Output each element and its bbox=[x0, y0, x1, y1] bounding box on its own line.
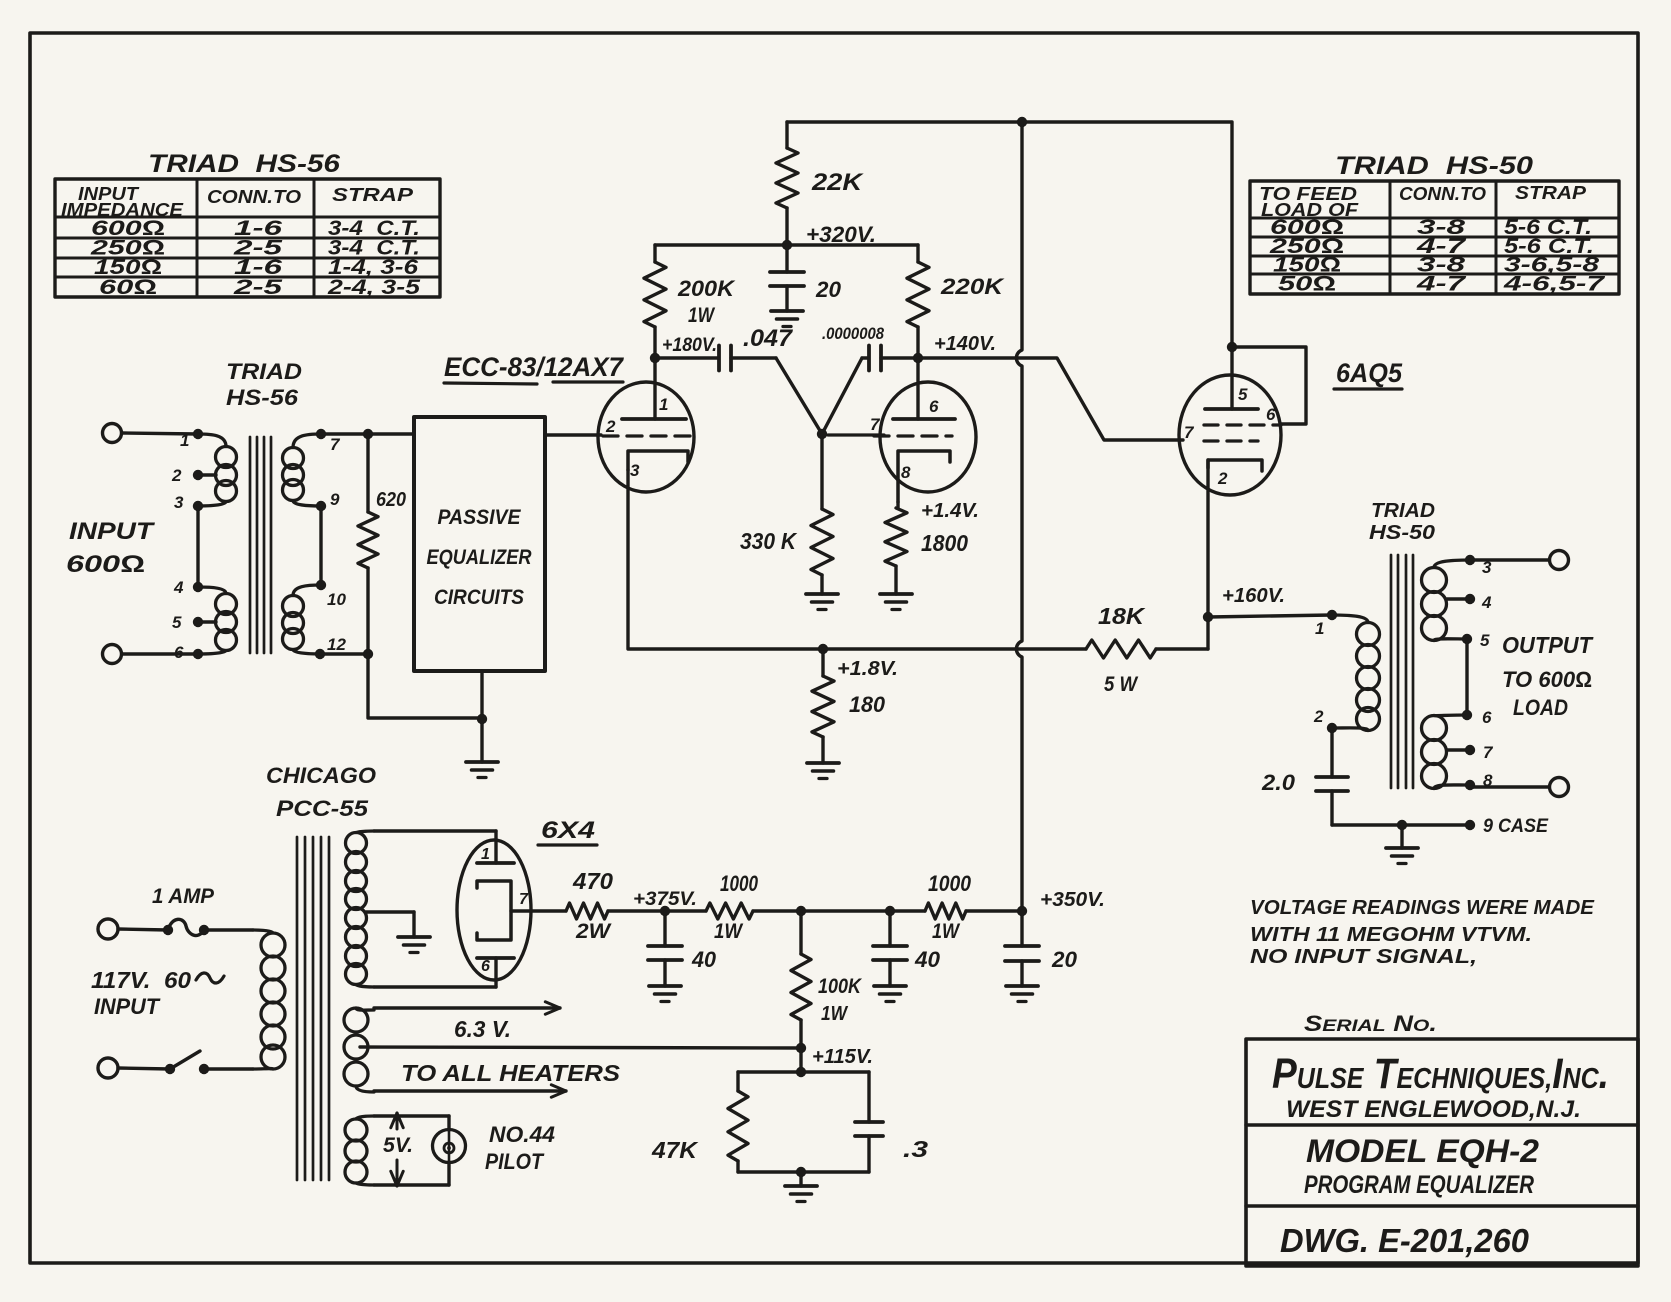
svg-text:5: 5 bbox=[1480, 631, 1490, 650]
V1B grid bbox=[828, 435, 952, 436]
resistor 220K bbox=[907, 245, 1005, 358]
svg-text:47K: 47K bbox=[651, 1137, 699, 1163]
V2 cathode wire bbox=[1206, 460, 1209, 617]
svg-text:1: 1 bbox=[180, 431, 189, 450]
heater wire arrow 2 bbox=[374, 1085, 566, 1097]
T2 secondary winding 3-5 bbox=[1422, 555, 1476, 644]
wire 18K to cathode bbox=[1156, 617, 1208, 649]
wire +320V rail bbox=[655, 243, 918, 246]
T3 primary winding bbox=[253, 930, 285, 1069]
T1 pin 5 tap bbox=[193, 617, 216, 627]
svg-text:1800: 1800 bbox=[921, 530, 968, 556]
V3 pin numbers bbox=[481, 846, 529, 975]
ground below 20 bbox=[771, 311, 803, 327]
node +375V bbox=[633, 889, 697, 916]
switch bbox=[118, 1051, 209, 1074]
V2 screen grid bbox=[1204, 423, 1281, 426]
svg-text:CIRCUITS: CIRCUITS bbox=[434, 586, 524, 609]
svg-text:PASSIVE: PASSIVE bbox=[438, 506, 522, 529]
T2 pin 4 tap bbox=[1447, 594, 1475, 604]
input terminal top bbox=[103, 424, 122, 443]
svg-text:1W: 1W bbox=[688, 304, 716, 327]
svg-text:6: 6 bbox=[174, 643, 184, 662]
label OUTPUT TO 600 LOAD bbox=[1502, 632, 1594, 720]
wire bias network top bbox=[738, 1070, 869, 1073]
wire bias network bottom bbox=[738, 1167, 869, 1186]
V1A grid bbox=[603, 434, 692, 437]
table TRIAD HS-50 bbox=[1250, 152, 1619, 295]
node +115V bbox=[796, 1043, 873, 1068]
wire box ground stem bbox=[480, 719, 483, 762]
svg-text:7: 7 bbox=[330, 435, 341, 454]
svg-text:NO INPUT SIGNAL,: NO INPUT SIGNAL, bbox=[1250, 946, 1477, 968]
T2 primary winding bbox=[1327, 610, 1380, 733]
label 6.3V bbox=[454, 1016, 511, 1042]
svg-text:100K: 100K bbox=[818, 975, 863, 998]
capacitor 20 decoupling bbox=[770, 245, 842, 311]
resistor 1000 1W second bbox=[925, 871, 972, 943]
svg-text:VOLTAGE READINGS WERE MADE: VOLTAGE READINGS WERE MADE bbox=[1250, 897, 1595, 919]
resistor 1000 1W first bbox=[706, 871, 759, 943]
svg-text:+1.8V.: +1.8V. bbox=[837, 658, 898, 680]
svg-text:2: 2 bbox=[605, 417, 616, 436]
svg-text:SERIAL NO.: SERIAL NO. bbox=[1304, 1011, 1437, 1036]
label 6X4 bbox=[538, 817, 597, 845]
svg-text:12: 12 bbox=[327, 635, 346, 654]
svg-text:EQUALIZER: EQUALIZER bbox=[427, 546, 533, 569]
svg-text:OUTPUT: OUTPUT bbox=[1502, 632, 1594, 658]
svg-text:CONN.TO: CONN.TO bbox=[207, 187, 301, 207]
svg-text:6X4: 6X4 bbox=[541, 817, 595, 844]
svg-text:PILOT: PILOT bbox=[485, 1149, 544, 1174]
output terminal bottom bbox=[1550, 778, 1569, 797]
capacitor .3 bbox=[855, 1072, 928, 1172]
wire box bottom lead bbox=[477, 671, 487, 724]
T1 primary winding 1-3 bbox=[193, 429, 237, 511]
pentode V2 envelope bbox=[1179, 375, 1281, 495]
T3 6.3V winding bbox=[344, 1008, 374, 1092]
heater wire 6.3V arrow bbox=[374, 1002, 560, 1014]
svg-text:40: 40 bbox=[691, 947, 717, 972]
svg-text:1000: 1000 bbox=[928, 871, 972, 896]
V2 pin numbers bbox=[1184, 385, 1276, 488]
title MODEL EQH-2 bbox=[1306, 1133, 1539, 1169]
V2 cathode bbox=[1208, 460, 1262, 471]
resistor 470 2W bbox=[566, 868, 613, 943]
svg-text:2: 2 bbox=[1313, 707, 1324, 726]
V2 plate bbox=[1205, 342, 1258, 409]
V3 plate 6 bbox=[477, 956, 514, 960]
label 6AQ5 bbox=[1334, 358, 1403, 389]
wire switch to T3 bbox=[204, 1067, 253, 1070]
svg-text:5V.: 5V. bbox=[383, 1134, 413, 1157]
label CHICAGO PCC-55 bbox=[266, 763, 376, 821]
capacitor 40 first bbox=[648, 911, 717, 986]
V2 plate top wire bbox=[1230, 122, 1233, 347]
svg-text:TRIAD: TRIAD bbox=[226, 359, 302, 384]
svg-text:2.0: 2.0 bbox=[1261, 770, 1296, 795]
T1 pin numbers bbox=[171, 431, 346, 662]
svg-text:STRAP: STRAP bbox=[1515, 183, 1587, 203]
wire lamp top bbox=[374, 1116, 449, 1130]
wire lamp bottom bbox=[374, 1162, 449, 1185]
T2 core bbox=[1391, 555, 1413, 788]
wire case ground bbox=[1332, 820, 1475, 848]
V3 plate 1 bbox=[477, 861, 514, 865]
V1A plate bbox=[622, 358, 686, 419]
T1 secondary link 9-10 bbox=[319, 506, 322, 585]
svg-text:TRIAD HS-56: TRIAD HS-56 bbox=[148, 150, 341, 178]
svg-text:6.3 V.: 6.3 V. bbox=[454, 1016, 511, 1042]
passive equalizer box bbox=[414, 417, 545, 671]
ground below 180 bbox=[807, 763, 839, 779]
svg-text:+1.4V.: +1.4V. bbox=[921, 500, 979, 522]
T1 pin 2 tap bbox=[193, 470, 216, 480]
node V1B grid junction bbox=[817, 429, 827, 439]
svg-text:CONN.TO: CONN.TO bbox=[1399, 184, 1486, 204]
wire to +350V bbox=[966, 909, 1022, 912]
svg-text:1W: 1W bbox=[821, 1003, 849, 1025]
node +320V bbox=[782, 222, 876, 250]
svg-text:INPUT: INPUT bbox=[69, 518, 156, 545]
svg-text:200K: 200K bbox=[677, 276, 736, 301]
input terminal bottom bbox=[103, 645, 122, 664]
svg-text:6: 6 bbox=[929, 397, 939, 416]
svg-text:6: 6 bbox=[1482, 708, 1492, 727]
title PROGRAM EQUALIZER bbox=[1304, 1171, 1534, 1199]
label 5V arrows bbox=[383, 1113, 413, 1186]
svg-text:3: 3 bbox=[174, 493, 184, 512]
svg-text:6: 6 bbox=[1266, 405, 1276, 424]
svg-text:7: 7 bbox=[1483, 743, 1494, 762]
triode V1B envelope bbox=[880, 382, 976, 492]
svg-text:1: 1 bbox=[1315, 619, 1324, 638]
wire B+ vertical bbox=[1016, 122, 1022, 911]
svg-text:1W: 1W bbox=[714, 920, 744, 943]
svg-text:40: 40 bbox=[914, 947, 941, 972]
svg-text:22K: 22K bbox=[811, 169, 864, 196]
V1A pin numbers bbox=[605, 395, 668, 480]
svg-text:+320V.: +320V. bbox=[806, 222, 876, 247]
svg-text:+350V.: +350V. bbox=[1040, 889, 1105, 911]
T3 HV center tap bbox=[366, 912, 414, 937]
svg-text:+115V.: +115V. bbox=[812, 1046, 873, 1068]
label NO.44 PILOT bbox=[485, 1122, 555, 1174]
ground below 330K bbox=[806, 594, 838, 610]
svg-text:4: 4 bbox=[1481, 593, 1492, 612]
svg-text:STRAP: STRAP bbox=[332, 185, 414, 205]
svg-text:2W: 2W bbox=[575, 920, 612, 943]
svg-text:INPUT: INPUT bbox=[94, 994, 161, 1019]
svg-text:1 AMP: 1 AMP bbox=[152, 885, 215, 908]
svg-text:220K: 220K bbox=[940, 274, 1006, 299]
ground below box bbox=[466, 762, 498, 778]
wire V1B plate to V2 grid bbox=[918, 358, 1183, 440]
wire +160V to T2 bbox=[1208, 615, 1332, 617]
ground below 40 second bbox=[874, 986, 906, 1002]
ground below 40 first bbox=[649, 986, 681, 1002]
resistor 18K 5W bbox=[1086, 603, 1156, 696]
title DWG E-201,260 bbox=[1280, 1222, 1530, 1259]
transformer T2 TRIAD HS-50 label bbox=[1369, 500, 1435, 544]
svg-text:.3: .3 bbox=[903, 1136, 928, 1162]
T2 pin numbers primary bbox=[1313, 619, 1324, 726]
svg-text:470: 470 bbox=[572, 868, 613, 894]
wire HV top to plate bbox=[374, 831, 496, 863]
T2 secondary winding 6-8 bbox=[1422, 710, 1476, 790]
resistor 180 bbox=[812, 649, 886, 763]
svg-text:+140V.: +140V. bbox=[934, 333, 996, 355]
svg-text:18K: 18K bbox=[1098, 603, 1146, 629]
node +140V bbox=[913, 333, 996, 363]
svg-text:PROGRAM EQUALIZER: PROGRAM EQUALIZER bbox=[1304, 1171, 1534, 1199]
ground bias network bbox=[785, 1186, 817, 1202]
svg-text:180: 180 bbox=[849, 692, 886, 717]
svg-text:ECC-83/12AX7: ECC-83/12AX7 bbox=[444, 352, 625, 382]
power terminal bottom bbox=[98, 1058, 118, 1078]
wire pin8 to output bbox=[1470, 785, 1549, 788]
T2 pin numbers secondary bbox=[1480, 558, 1494, 790]
V1B cathode bbox=[898, 451, 950, 502]
resistor 330K bbox=[740, 434, 833, 594]
svg-text:+160V.: +160V. bbox=[1222, 585, 1285, 607]
label INPUT 600&#8486; bbox=[66, 518, 156, 578]
svg-text:4-7: 4-7 bbox=[1415, 272, 1467, 295]
svg-text:1: 1 bbox=[659, 395, 668, 414]
svg-text:6AQ5: 6AQ5 bbox=[1336, 358, 1403, 388]
resistor 200K 1W bbox=[644, 245, 736, 358]
label SERIAL NO. bbox=[1304, 1011, 1437, 1036]
svg-text:+375V.: +375V. bbox=[633, 889, 697, 910]
V3 cathode lead bbox=[511, 909, 566, 912]
wire +115V down bbox=[796, 1048, 806, 1077]
capacitor .047 bbox=[655, 325, 794, 371]
svg-text:2: 2 bbox=[1217, 469, 1228, 488]
V3 cathode bbox=[477, 881, 511, 940]
svg-text:NO.44: NO.44 bbox=[489, 1122, 555, 1147]
wire B+ top bbox=[787, 117, 1231, 127]
label 9 CASE bbox=[1483, 816, 1549, 837]
svg-text:TRIAD: TRIAD bbox=[1371, 500, 1435, 522]
svg-text:2: 2 bbox=[171, 466, 182, 485]
V1A cathode bbox=[628, 451, 688, 470]
triode V1A envelope bbox=[598, 382, 694, 492]
svg-text:WEST ENGLEWOOD,N.J.: WEST ENGLEWOOD,N.J. bbox=[1286, 1096, 1581, 1123]
svg-text:5: 5 bbox=[1238, 385, 1248, 404]
svg-text:7: 7 bbox=[870, 415, 881, 434]
resistor 620 bbox=[358, 434, 406, 654]
svg-text:5: 5 bbox=[172, 613, 182, 632]
V1B plate bbox=[893, 358, 955, 419]
node +350V bbox=[1017, 889, 1105, 916]
svg-text:8: 8 bbox=[901, 463, 911, 482]
transformer T3 core bbox=[297, 837, 329, 1180]
svg-text:3: 3 bbox=[630, 461, 640, 480]
wire 470 to +375V bbox=[608, 909, 706, 912]
node +180V bbox=[650, 335, 717, 363]
wire heater CT bbox=[360, 1047, 801, 1048]
svg-text:.047: .047 bbox=[743, 325, 794, 352]
svg-text:620: 620 bbox=[376, 489, 406, 511]
wire box to grid bbox=[545, 433, 601, 436]
T2 pin 7 tap bbox=[1447, 745, 1475, 755]
svg-text:HS-56: HS-56 bbox=[226, 385, 299, 410]
T3 5V winding bbox=[345, 1116, 374, 1185]
title block box bbox=[1246, 1039, 1638, 1266]
svg-text:1000: 1000 bbox=[720, 871, 759, 896]
svg-text:20: 20 bbox=[815, 277, 842, 302]
V2 screen strap bbox=[1232, 347, 1306, 424]
ground T2 case bbox=[1386, 848, 1418, 864]
ground below 20 final bbox=[1006, 986, 1038, 1002]
svg-text:10: 10 bbox=[327, 590, 346, 609]
wire .047 to grid bbox=[776, 358, 822, 434]
capacitor 20 final bbox=[1005, 911, 1078, 986]
wire input bottom bbox=[122, 652, 198, 655]
svg-text:WITH 11 MEGOHM VTVM.: WITH 11 MEGOHM VTVM. bbox=[1250, 924, 1532, 946]
svg-text:TO 600Ω: TO 600Ω bbox=[1502, 667, 1592, 692]
svg-text:DWG. E-201,260: DWG. E-201,260 bbox=[1280, 1222, 1530, 1259]
svg-text:4: 4 bbox=[173, 578, 184, 597]
svg-text:4-6,5-7: 4-6,5-7 bbox=[1502, 272, 1605, 295]
resistor 22K bbox=[776, 122, 864, 245]
T1 core bbox=[250, 437, 271, 653]
ground below 1800 bbox=[880, 594, 912, 610]
V2 control grid bbox=[1204, 439, 1258, 442]
table TRIAD HS-56 bbox=[55, 150, 440, 299]
rectifier V3 envelope bbox=[457, 840, 531, 980]
svg-text:TO ALL HEATERS: TO ALL HEATERS bbox=[401, 1060, 621, 1086]
label 117V 60 INPUT bbox=[91, 967, 224, 1019]
ground HV center tap bbox=[398, 937, 430, 953]
node +1.8V bbox=[818, 644, 898, 680]
T1 secondary winding 7-9 bbox=[283, 429, 327, 511]
svg-text:MODEL EQH-2: MODEL EQH-2 bbox=[1306, 1133, 1539, 1169]
svg-text:LOAD: LOAD bbox=[1513, 695, 1568, 720]
label ECC-83/12AX7 bbox=[444, 352, 625, 384]
wire input top bbox=[122, 433, 198, 434]
T1 primary link 3-4 bbox=[196, 506, 199, 587]
svg-text:.0000008: .0000008 bbox=[822, 324, 884, 343]
resistor 47K bbox=[651, 1072, 748, 1172]
svg-text:TRIAD HS-50: TRIAD HS-50 bbox=[1335, 152, 1533, 180]
svg-text:+180V.: +180V. bbox=[662, 335, 717, 356]
note voltage readings bbox=[1250, 897, 1595, 968]
svg-text:9 CASE: 9 CASE bbox=[1483, 816, 1549, 837]
wire pin12 junction bbox=[320, 649, 373, 659]
svg-text:2-5: 2-5 bbox=[232, 276, 282, 299]
svg-text:1W: 1W bbox=[932, 920, 961, 943]
resistor 1800 bbox=[885, 500, 979, 594]
V1B pin numbers bbox=[870, 397, 939, 482]
svg-text:PCC-55: PCC-55 bbox=[276, 796, 369, 821]
svg-text:20: 20 bbox=[1051, 947, 1078, 972]
pilot lamp NO.44 bbox=[433, 1130, 466, 1163]
wire 1000 to junction bbox=[753, 906, 925, 916]
resistor 100K 1W bbox=[791, 911, 863, 1048]
svg-text:PULSE TECHNIQUES,INC.: PULSE TECHNIQUES,INC. bbox=[1272, 1050, 1609, 1098]
svg-text:6: 6 bbox=[481, 958, 490, 975]
svg-text:2-4, 3-5: 2-4, 3-5 bbox=[327, 276, 421, 299]
title PULSE TECHNIQUES INC bbox=[1272, 1050, 1609, 1098]
V1A cathode wire bbox=[628, 470, 823, 649]
power terminal top bbox=[98, 919, 118, 939]
svg-text:60Ω: 60Ω bbox=[99, 276, 157, 299]
svg-text:7: 7 bbox=[1184, 423, 1195, 442]
wire fuse to T3 bbox=[204, 928, 253, 931]
output terminal top bbox=[1550, 551, 1569, 570]
wire HV bottom to plate bbox=[374, 958, 496, 987]
svg-text:5 W: 5 W bbox=[1104, 673, 1139, 696]
svg-text:1: 1 bbox=[481, 846, 490, 863]
node +160V bbox=[1203, 585, 1285, 622]
wire to box ground bbox=[368, 654, 482, 718]
svg-text:HS-50: HS-50 bbox=[1369, 522, 1435, 544]
T1 primary winding 4-6 bbox=[193, 582, 237, 659]
svg-text:9: 9 bbox=[330, 490, 340, 509]
svg-text:50Ω: 50Ω bbox=[1278, 272, 1336, 295]
capacitor .0000008 bbox=[822, 324, 918, 434]
label TO ALL HEATERS bbox=[401, 1060, 621, 1086]
title WEST ENGLEWOOD NJ bbox=[1286, 1096, 1581, 1123]
fuse 1 AMP bbox=[118, 885, 215, 936]
transformer T1 TRIAD HS-56 label bbox=[226, 359, 302, 410]
T1 secondary winding 10-12 bbox=[283, 580, 327, 659]
svg-text:600Ω: 600Ω bbox=[66, 551, 145, 578]
wire pin7 to box bbox=[321, 429, 414, 439]
T3 HV winding bbox=[346, 831, 375, 987]
T2 secondary link 5-6 bbox=[1465, 639, 1468, 715]
capacitor 2.0 bbox=[1261, 728, 1348, 825]
capacitor 40 second bbox=[873, 911, 941, 986]
svg-text:117V. 60: 117V. 60 bbox=[91, 967, 191, 993]
svg-text:7: 7 bbox=[519, 891, 529, 908]
wire cathode bus bbox=[823, 647, 1086, 650]
svg-text:330 K: 330 K bbox=[740, 528, 797, 554]
svg-text:CHICAGO: CHICAGO bbox=[266, 763, 376, 788]
wire pin3 to output bbox=[1470, 558, 1549, 561]
